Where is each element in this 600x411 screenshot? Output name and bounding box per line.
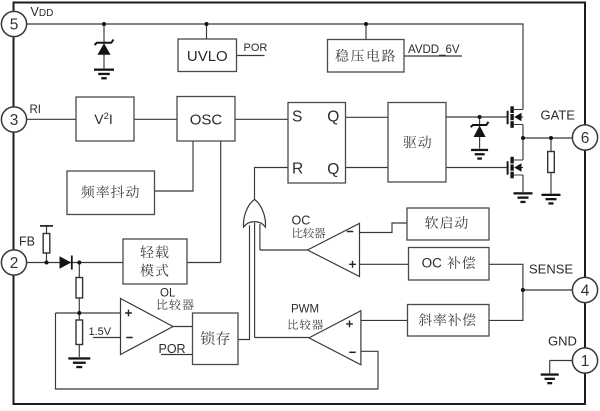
svg-text:3: 3 <box>10 112 19 129</box>
svg-text:6: 6 <box>581 130 590 147</box>
svg-text:UVLO: UVLO <box>187 48 228 65</box>
svg-text:POR: POR <box>159 342 186 356</box>
svg-text:PWM: PWM <box>291 304 319 316</box>
svg-text:1: 1 <box>581 353 590 370</box>
svg-text:POR: POR <box>244 42 268 54</box>
svg-text:S: S <box>292 109 302 126</box>
svg-text:2: 2 <box>10 255 19 272</box>
svg-text:1.5V: 1.5V <box>89 326 112 338</box>
svg-text:FB: FB <box>19 235 35 249</box>
svg-text:Q: Q <box>327 161 339 178</box>
svg-text:RI: RI <box>30 104 42 116</box>
svg-text:R: R <box>292 161 303 178</box>
svg-text:VDD: VDD <box>31 5 54 19</box>
svg-text:4: 4 <box>581 283 590 300</box>
svg-text:5: 5 <box>10 17 19 34</box>
svg-text:SENSE: SENSE <box>529 262 573 277</box>
svg-text:OL: OL <box>160 288 176 300</box>
svg-text:AVDD_6V: AVDD_6V <box>408 44 460 56</box>
svg-text:GATE: GATE <box>541 108 576 123</box>
svg-text:OC: OC <box>292 213 311 227</box>
svg-text:OSC: OSC <box>190 112 223 129</box>
svg-text:OC: OC <box>422 256 443 271</box>
svg-text:GND: GND <box>548 334 577 349</box>
svg-text:V2I: V2I <box>94 111 113 127</box>
svg-text:Q: Q <box>327 109 339 126</box>
